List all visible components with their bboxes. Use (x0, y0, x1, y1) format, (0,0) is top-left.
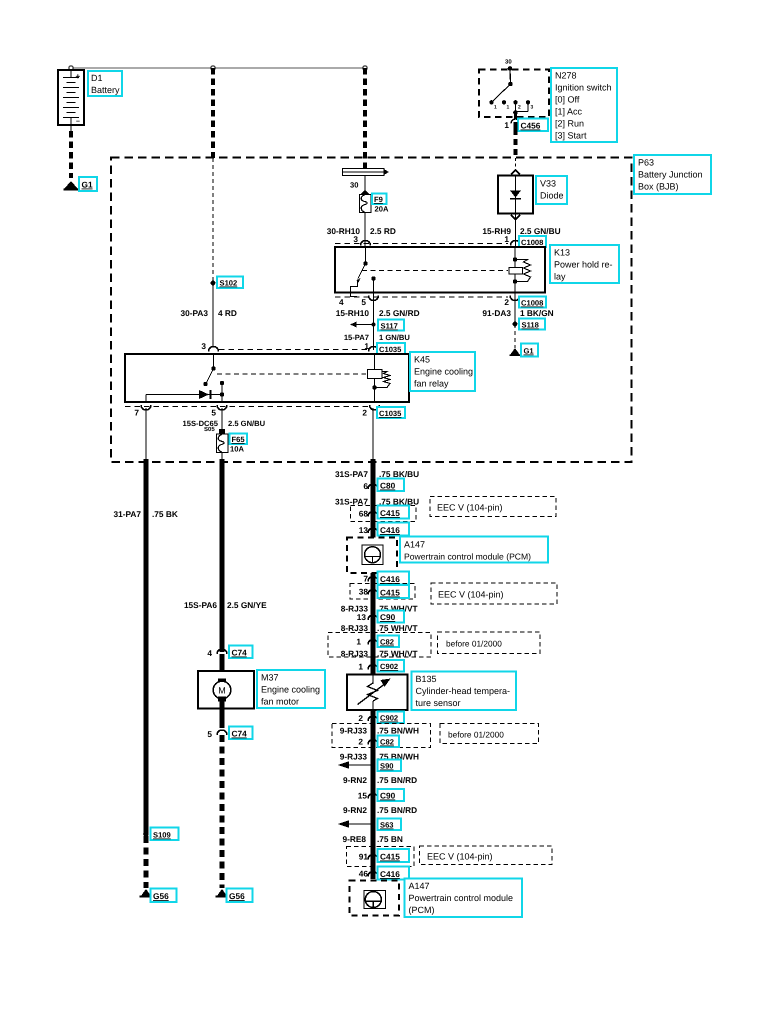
K13 pin 3 (353, 234, 370, 246)
wire: K13 pin 5 to K45 pin 1 (373, 299, 375, 350)
wire label 8-RJ33 .75 WH/VT (row 2) (341, 623, 418, 633)
label B135 Cylinder-head temperature sensor (412, 672, 517, 711)
wire label 30-PA3 4 RD (180, 308, 236, 318)
svg-text:46: 46 (359, 869, 369, 879)
svg-text:7: 7 (363, 574, 368, 584)
label C415 (68) (378, 506, 410, 519)
wire label 31-PA7 .75 BK (113, 509, 177, 519)
label G56 (left) (151, 889, 177, 903)
svg-text:2: 2 (362, 408, 367, 418)
ignition switch contacts 0-3 (489, 100, 533, 110)
splice S63 with branch arrow (338, 820, 376, 827)
svg-text:Diode: Diode (540, 191, 564, 201)
svg-text:K45: K45 (414, 355, 430, 365)
svg-text:C902: C902 (380, 714, 398, 723)
connector C456 pin 1 (504, 119, 520, 130)
svg-text:15S-PA6: 15S-PA6 (184, 600, 217, 610)
connector C74 pin 5 (207, 729, 227, 739)
svg-text:EEC V (104-pin): EEC V (104-pin) (427, 852, 493, 862)
fuse F9 arrow tip (361, 190, 370, 195)
wire: fuse F9 to K13 pin 3 (364, 213, 366, 248)
connector C415 pin 91 (359, 852, 378, 862)
svg-text:4: 4 (339, 297, 344, 307)
wire label 9-RE8 .75 BN (342, 834, 402, 844)
label C1008 (top) (519, 236, 546, 247)
label C82 (2) (378, 736, 400, 748)
svg-text:D1: D1 (91, 73, 103, 83)
svg-text:1: 1 (356, 637, 361, 647)
svg-text:F65: F65 (232, 435, 246, 444)
terminal 30 stub (ignition switch feed) (505, 59, 512, 85)
svg-text:S118: S118 (522, 321, 539, 330)
label V33 Diode (536, 176, 567, 204)
svg-text:Power hold re-: Power hold re- (554, 260, 613, 270)
K45 switch throw contact stub (220, 381, 224, 402)
wire: C74 into M37 (220, 654, 225, 680)
svg-text:Box (BJB): Box (BJB) (638, 182, 679, 192)
K13 pin 2 cup (504, 296, 520, 308)
wire: K45 pin 5 to fuse F65 (221, 408, 223, 430)
svg-text:before 01/2000: before 01/2000 (448, 730, 504, 740)
svg-text:C1008: C1008 (521, 299, 543, 308)
svg-text:C416: C416 (380, 525, 400, 535)
svg-text:.75 BK: .75 BK (152, 509, 178, 519)
svg-text:13: 13 (357, 612, 367, 622)
svg-text:30-PA3: 30-PA3 (180, 308, 208, 318)
svg-text:F9: F9 (374, 195, 383, 204)
connector C90 pin 13 (357, 612, 378, 622)
svg-text:7: 7 (134, 408, 139, 418)
K13 pin 5 cup (361, 296, 378, 308)
connector line C1035 top (219, 349, 368, 351)
svg-text:.75 BK/BU: .75 BK/BU (379, 469, 419, 479)
svg-text:68: 68 (359, 509, 369, 519)
svg-text:G56: G56 (229, 891, 245, 901)
node: battery terminal (69, 66, 73, 70)
label S63 (378, 819, 402, 831)
wire label 9-RJ33 .75 BN/WH (row 2) (340, 752, 419, 762)
node: bus junction (x=365) (363, 66, 367, 70)
wire: PCM out pin 7 (371, 573, 376, 675)
label C82 (1) (378, 636, 400, 648)
svg-text:A147: A147 (404, 540, 425, 550)
node: bus junction S (x=213) (211, 66, 215, 70)
wire label 91-DA3 1 BK/GN (482, 308, 553, 318)
svg-text:9-RJ33: 9-RJ33 (340, 726, 368, 736)
svg-text:C90: C90 (380, 612, 396, 622)
ground G56 (motor) (216, 889, 229, 898)
K45 pin 7 cup (134, 405, 151, 418)
wire: V33 to K13 pin 1 (515, 214, 517, 248)
ground G56 (left) (140, 889, 153, 898)
svg-text:91: 91 (359, 852, 369, 862)
label D1 Battery (88, 71, 122, 96)
svg-text:C90: C90 (380, 791, 396, 801)
connector C902 pin 1 (358, 662, 378, 672)
svg-text:C416: C416 (380, 869, 400, 879)
wire label 9-RN2 .75 BN/RD (row 1) (343, 775, 417, 785)
svg-text:fan relay: fan relay (414, 379, 449, 389)
K45 pin 2 cup (362, 405, 379, 418)
label C415 (91) (378, 849, 410, 862)
svg-text:S102: S102 (220, 279, 238, 288)
svg-text:G56: G56 (153, 891, 169, 901)
label C416 (46) (378, 867, 410, 880)
svg-text:8-RJ33: 8-RJ33 (341, 623, 369, 633)
note EEC V (104-pin) #1 (430, 497, 556, 517)
wire: S102 to K45 pin 3 (212, 283, 214, 346)
svg-text:+: + (76, 72, 81, 81)
svg-text:C82: C82 (380, 738, 394, 747)
motor M37 (198, 671, 254, 709)
svg-text:30: 30 (505, 59, 512, 66)
svg-text:C80: C80 (380, 481, 396, 491)
connector C74 pin 4 (207, 648, 227, 658)
wire: K45 pin 2 to PCM (31S-PA7) (372, 408, 374, 538)
ground G1 (battery) (64, 181, 79, 191)
ground G1 (BJB) (510, 348, 521, 356)
svg-text:C416: C416 (380, 574, 400, 584)
connector C416 pin 13 (359, 525, 378, 535)
svg-text:[2] Run: [2] Run (555, 119, 584, 129)
wire label 9-RJ33 .75 BN/WH (row 1) (340, 726, 419, 736)
svg-text:5: 5 (207, 729, 212, 739)
label N278 Ignition switch (551, 68, 617, 142)
PCM icon (top) (362, 545, 383, 565)
svg-text:S117: S117 (381, 322, 398, 331)
svg-text:A147: A147 (409, 881, 430, 891)
label S102 (217, 277, 243, 289)
PCM icon (bottom) (364, 891, 386, 909)
wire: battery negative to G1 (70, 125, 72, 178)
connector arrow into V33 (511, 170, 520, 175)
battery junction box P63 enclosure (111, 158, 632, 463)
label C902 (1) (378, 660, 405, 672)
wire: bus drop to S102 (hot feed into BJB) (211, 68, 215, 282)
K13 coil (509, 247, 531, 299)
wire: battery positive bus (71, 67, 365, 69)
svg-text:20A: 20A (375, 205, 389, 214)
svg-text:31S-PA7: 31S-PA7 (335, 469, 368, 479)
svg-text:4: 4 (207, 648, 212, 658)
svg-text:2.5 GN/BU: 2.5 GN/BU (228, 419, 266, 428)
wire label 8-RJ33 .75 WH/VT (row 1) (341, 604, 418, 614)
wire label 31S-PA7 .75 BK/BU (row 1) (335, 469, 419, 479)
svg-text:2.5 RD: 2.5 RD (370, 226, 396, 236)
connector C415 pin 38 box (350, 584, 415, 600)
svg-text:2.5 GN/BU: 2.5 GN/BU (520, 226, 561, 236)
svg-text:[1] Acc: [1] Acc (555, 107, 583, 117)
svg-text:2: 2 (504, 297, 509, 307)
svg-text:2: 2 (518, 105, 521, 111)
svg-text:M37: M37 (261, 673, 279, 683)
connector C902 pin 2 (358, 713, 378, 723)
label A147 Powertrain control module (PCM) (top) (400, 537, 548, 563)
PCM A147 enclosure (bottom) (350, 881, 400, 916)
label K13 Power hold relay (550, 245, 619, 283)
svg-text:–: – (76, 118, 80, 125)
label A147 Powertrain control module (PCM) (bottom) (405, 879, 523, 918)
label C415 (38) (378, 585, 410, 598)
connector C415 pin 91 box (347, 847, 415, 867)
svg-text:Ignition switch: Ignition switch (555, 83, 612, 93)
connector C82 pin 2 box (332, 724, 431, 748)
svg-text:Engine cooling: Engine cooling (414, 367, 473, 377)
connector C415 pin 68 box (351, 506, 417, 522)
svg-text:Cylinder-head tempera-: Cylinder-head tempera- (416, 686, 511, 696)
svg-text:V33: V33 (540, 179, 556, 189)
relay K13 body (335, 247, 545, 293)
note before 01/2000 #2 (440, 724, 539, 744)
svg-text:ture sensor: ture sensor (416, 698, 461, 708)
svg-text:lay: lay (554, 272, 566, 282)
svg-text:S90: S90 (380, 762, 394, 771)
K45 pin 5 cup (211, 405, 227, 418)
wire label 30-RH10 2.5 RD (327, 226, 396, 236)
svg-text:2.5 GN/RD: 2.5 GN/RD (379, 308, 420, 318)
svg-text:C456: C456 (521, 121, 541, 131)
svg-text:(PCM): (PCM) (409, 905, 435, 915)
svg-text:1 GN/BU: 1 GN/BU (379, 333, 410, 342)
label P63 Battery Junction Box (BJB) (634, 155, 711, 194)
battery D1 (58, 70, 84, 125)
connector C80 pin 6 (363, 481, 378, 491)
wire: K13 pin 2 to S118 (514, 299, 516, 324)
fuse F65 (217, 429, 229, 453)
svg-text:9-RJ33: 9-RJ33 (340, 752, 368, 762)
svg-text:15: 15 (358, 791, 368, 801)
svg-text:8-RJ33: 8-RJ33 (341, 649, 369, 659)
svg-text:10A: 10A (230, 445, 244, 454)
svg-text:5: 5 (211, 408, 216, 418)
label C90 (15) (378, 789, 405, 801)
svg-text:EEC V (104-pin): EEC V (104-pin) (437, 503, 503, 513)
connector C416 pin 7 (363, 574, 378, 584)
label C902 (2) (378, 712, 405, 724)
wire: K45 pin 7 ground branch (145, 408, 147, 834)
svg-text:S05: S05 (204, 426, 215, 433)
label C416 (13) (378, 523, 410, 536)
svg-text:M: M (218, 686, 226, 696)
svg-text:4 RD: 4 RD (218, 308, 237, 318)
connector line C1008 top (335, 243, 508, 245)
svg-text:EEC V (104-pin): EEC V (104-pin) (438, 590, 504, 600)
svg-text:2.5 GN/YE: 2.5 GN/YE (227, 600, 267, 610)
label C74 (pin 4) (229, 646, 253, 659)
svg-text:fan motor: fan motor (261, 697, 299, 707)
svg-text:1 BK/GN: 1 BK/GN (520, 308, 554, 318)
connector line C1008 bottom (335, 296, 508, 298)
svg-text:C74: C74 (232, 729, 248, 739)
connector C415 pin 68 (359, 509, 378, 519)
svg-text:S63: S63 (380, 821, 394, 830)
svg-text:G1: G1 (524, 347, 535, 356)
splice S102 (211, 281, 216, 286)
K13 switch (351, 247, 368, 297)
svg-text:Powertrain control module (PCM: Powertrain control module (PCM) (404, 552, 531, 562)
svg-text:B135: B135 (416, 674, 437, 684)
wire label 15S-DC65 2.5 GN/BU (183, 419, 266, 433)
terminal label 30 (350, 181, 358, 190)
connector line C1035 bottom (125, 406, 368, 408)
svg-text:C82: C82 (380, 638, 394, 647)
svg-text:C74: C74 (232, 648, 248, 658)
connector C415 pin 38 (359, 587, 378, 597)
K13 pin 4 (339, 297, 344, 307)
svg-text:3: 3 (531, 105, 534, 111)
label S117 (378, 320, 404, 331)
wire label 15-RH9 2.5 GN/BU (482, 226, 560, 236)
relay K45 body (125, 354, 409, 402)
svg-text:13: 13 (359, 525, 369, 535)
label C80 (378, 479, 405, 492)
wire: S109 to G56 (144, 836, 149, 888)
wire: S118 to ground (514, 324, 516, 348)
svg-text:C1035: C1035 (379, 345, 402, 354)
K45 pin 3 cup (201, 341, 218, 352)
wire: M37 to C74 pin 5 (220, 709, 225, 729)
label C90 (13) (378, 611, 405, 623)
ignition switch rotor (492, 82, 513, 103)
wire: bus drop to bus bar (x=365) (363, 68, 367, 169)
wire: C74 pin 5 to G56 (220, 735, 225, 888)
svg-text:.75 BN/RD: .75 BN/RD (377, 805, 417, 815)
svg-text:C902: C902 (380, 662, 398, 671)
svg-text:C1035: C1035 (379, 409, 402, 418)
wire: contacts 2/3 bracket to C456 (513, 102, 528, 118)
svg-text:9-RN2: 9-RN2 (343, 805, 367, 815)
label G1 (79, 177, 97, 191)
svg-text:C1008: C1008 (521, 238, 543, 247)
wire: C456 to V33 (run feed) (514, 122, 518, 170)
label C1008 (bottom) (519, 297, 546, 308)
splice S118 (513, 322, 518, 327)
wire label 15-RH10 2.5 GN/RD (336, 308, 420, 318)
K45 mechanical link (dashed) (217, 373, 366, 375)
connector C82 pin 1 box (328, 633, 431, 658)
svg-text:38: 38 (359, 587, 369, 597)
wire: fuse F65 to motor branch (221, 453, 223, 653)
svg-text:before 01/2000: before 01/2000 (446, 639, 502, 649)
label C74 (pin 5) (229, 727, 253, 740)
svg-text:G1: G1 (82, 180, 93, 190)
svg-text:S109: S109 (153, 831, 171, 840)
svg-text:3: 3 (353, 234, 358, 244)
svg-text:5: 5 (361, 297, 366, 307)
svg-text:Battery Junction: Battery Junction (638, 170, 703, 180)
svg-text:2: 2 (358, 713, 363, 723)
splice S90 with branch arrow (338, 761, 376, 768)
svg-text:31-PA7: 31-PA7 (113, 509, 141, 519)
splice S109 (143, 831, 149, 837)
label G1 (BJB) (521, 344, 538, 357)
connector C82 pin 2 (358, 737, 378, 747)
svg-text:N278: N278 (555, 71, 577, 81)
wire: bus bar to fuse F9 (364, 176, 366, 193)
svg-text:9-RE8: 9-RE8 (342, 834, 366, 844)
diode V33 (498, 176, 533, 214)
K45 pin 1 cup (364, 341, 378, 352)
K45 switch (203, 354, 215, 386)
svg-text:1: 1 (494, 105, 497, 111)
sensor B135 (347, 675, 408, 711)
svg-text:9-RN2: 9-RN2 (343, 775, 367, 785)
svg-text:3: 3 (201, 341, 206, 351)
svg-text:91-DA3: 91-DA3 (482, 308, 511, 318)
label S118 (519, 319, 545, 330)
wire label 31S-PA7 .75 BK/BU (row 2) (335, 497, 419, 507)
label C456 (518, 119, 548, 132)
K13 pin 5 stub (371, 276, 375, 299)
note EEC V (104-pin) #3 (420, 846, 553, 865)
diode inside K45 (146, 390, 222, 402)
note EEC V (104-pin) #2 (431, 583, 557, 604)
bus bar 30 feed (343, 169, 390, 176)
label C1035 (bottom) (377, 407, 405, 418)
wire label 15S-PA6 2.5 GN/YE (184, 600, 267, 610)
svg-text:.75 WH/VT: .75 WH/VT (377, 623, 418, 633)
connector C90 pin 15 (358, 791, 378, 801)
svg-text:Powertrain control module: Powertrain control module (409, 893, 514, 903)
wire label 15-PA7 1 GN/BU (344, 333, 411, 342)
K45 coil (368, 354, 391, 402)
svg-text:1: 1 (358, 662, 363, 672)
PCM A147 enclosure (top) (347, 538, 397, 574)
wire label 9-RN2 .75 BN/RD (row 2) (343, 805, 417, 815)
svg-text:1: 1 (504, 120, 509, 130)
label M37 Engine cooling fan motor (257, 670, 325, 708)
K13 pin 1 (504, 234, 520, 246)
label C1035 (top) (377, 343, 405, 354)
svg-text:[0] Off: [0] Off (555, 95, 580, 105)
svg-text:.75 BN/RD: .75 BN/RD (377, 775, 417, 785)
svg-text:.75 WH/VT: .75 WH/VT (377, 649, 418, 659)
ignition switch N278 enclosure (479, 70, 549, 118)
label S109 (151, 828, 179, 841)
connector C82 pin 1 (356, 637, 378, 647)
wire: B135 pin 2 to PCM (371, 710, 376, 879)
svg-text:C415: C415 (380, 588, 400, 598)
svg-text:6: 6 (363, 481, 368, 491)
label K45 Engine cooling fan relay (410, 352, 475, 391)
label F65 10A (230, 434, 248, 454)
label C416 (7) (378, 572, 410, 585)
label F9 20A (372, 194, 389, 214)
svg-text:.75 BN/WH: .75 BN/WH (377, 726, 419, 736)
label S90 (378, 760, 402, 772)
svg-text:15-RH10: 15-RH10 (336, 308, 370, 318)
connector C416 pin 46 (359, 869, 378, 879)
svg-text:Battery: Battery (91, 85, 120, 95)
svg-text:30: 30 (350, 181, 358, 190)
note before 01/2000 #1 (438, 632, 541, 654)
fuse F9 (360, 195, 372, 213)
svg-text:Engine cooling: Engine cooling (261, 685, 320, 695)
label G56 (motor) (227, 889, 253, 903)
connector arrow out of V33 (511, 215, 520, 220)
svg-text:.75 BN: .75 BN (377, 834, 403, 844)
splice S117 with branch arrow (350, 322, 376, 328)
K13 mechanical link (dashed) (362, 270, 508, 272)
wire label 8-RJ33 .75 WH/VT (row 3) (341, 649, 418, 659)
svg-text:C415: C415 (380, 852, 400, 862)
svg-text:2: 2 (358, 737, 363, 747)
svg-text:P63: P63 (638, 158, 654, 168)
svg-text:[3] Start: [3] Start (555, 131, 587, 141)
svg-text:K13: K13 (554, 248, 570, 258)
svg-text:1: 1 (507, 105, 510, 111)
svg-text:C415: C415 (380, 508, 400, 518)
